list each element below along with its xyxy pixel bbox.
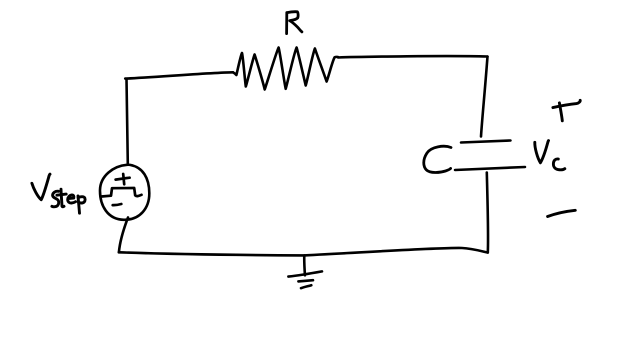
step waveform inside source <box>102 188 142 197</box>
resistor R <box>233 48 338 90</box>
wire right vertical lower <box>487 173 488 253</box>
wire right vertical upper <box>481 57 488 137</box>
plus sign (Vc polarity, top right) <box>553 100 580 121</box>
ground bar 1 <box>288 271 322 276</box>
label Vstep <box>32 174 85 213</box>
label C <box>424 146 451 172</box>
minus sign inside source <box>113 204 122 205</box>
wire bottom horizontal <box>119 248 488 255</box>
label R <box>287 12 302 34</box>
minus sign (Vc polarity, bottom right) <box>548 210 576 216</box>
plus sign inside source <box>116 174 130 184</box>
wire left vertical (source to top-left corner) <box>127 79 128 164</box>
ground bar 2 <box>298 280 313 281</box>
capacitor C top plate <box>461 141 511 143</box>
wire top-right horizontal <box>338 56 488 57</box>
voltage source circle V1 <box>100 165 149 220</box>
capacitor C bottom plate <box>455 167 525 170</box>
ground bar 3 <box>301 285 311 288</box>
label Vc <box>535 141 565 170</box>
ground stub <box>303 255 306 275</box>
wire top-left horizontal <box>125 72 233 78</box>
wire source bottom to corner <box>119 218 128 253</box>
